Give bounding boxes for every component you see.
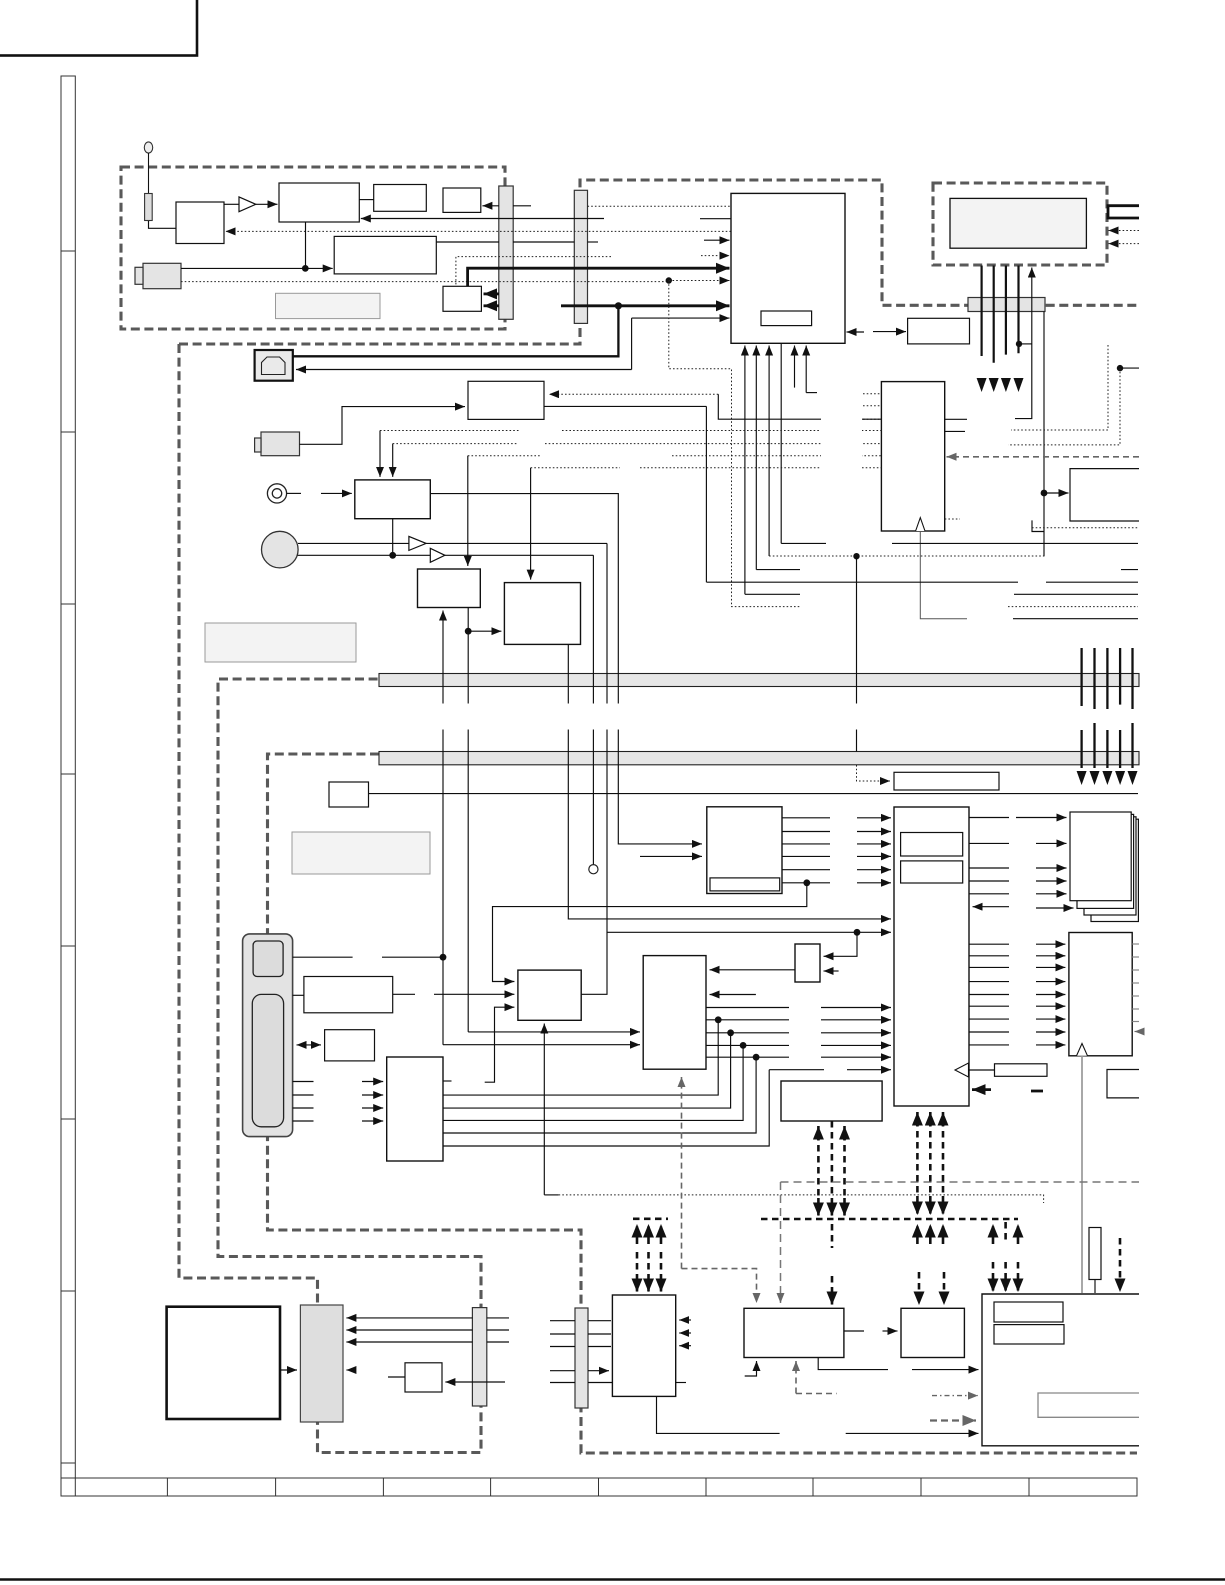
- connector bar power J4: [300, 1305, 343, 1422]
- wire return to T2: [361, 218, 604, 220]
- node T2/RF junction: [302, 265, 309, 272]
- wire J1 pin: [513, 205, 531, 207]
- node remote line: [440, 954, 447, 961]
- V1 to U4 row 6: [782, 882, 891, 884]
- wire J2 pin: [588, 241, 599, 243]
- LCD module box: [950, 198, 1086, 248]
- wire dotted into U1 y255: [701, 255, 730, 257]
- box U5: [1107, 1070, 1139, 1098]
- far right tap into P4: [1119, 1238, 1122, 1292]
- box P1 regulator: [612, 1295, 675, 1396]
- tall IC U4: [894, 807, 969, 1106]
- power column x1120: [1119, 648, 1121, 705]
- box B5: [387, 1057, 443, 1161]
- label box main: [205, 623, 356, 662]
- flash stack back2: [1084, 817, 1136, 915]
- video decoder box V1: [707, 807, 782, 894]
- wire AV bottom to line2: [392, 519, 394, 556]
- wire thick bus to main IC: [561, 304, 730, 307]
- band line y543: [781, 542, 1138, 544]
- box V2: [781, 1081, 882, 1121]
- connector bar J6: [575, 1308, 588, 1408]
- wire A1 down x468: [467, 608, 469, 1032]
- dashed boundary: main board top: [179, 180, 1139, 344]
- wire J2 to main IC (dotted): [588, 205, 732, 207]
- dotted stair a: [1011, 345, 1108, 430]
- cascade drop 1: [443, 1020, 718, 1095]
- gray arrow into M3 right: [1135, 1031, 1140, 1033]
- node J3 line: [1041, 490, 1048, 497]
- gray dashed drop to P2: [780, 1182, 782, 1303]
- U4 inner rect 1: [901, 833, 963, 857]
- M2 left stub 1: [863, 393, 881, 395]
- M3 clock wedge: [1077, 1044, 1088, 1056]
- gray dashdot arrow into P4: [932, 1395, 978, 1397]
- U4 clock triangle: [955, 1063, 969, 1077]
- wire into U1 y240: [704, 239, 730, 241]
- box M1: [1070, 469, 1139, 521]
- wire R1 to E1: [393, 993, 515, 995]
- wire into video box b: [640, 855, 702, 857]
- P1 top power stub: [633, 1218, 668, 1221]
- LCD dotted arrow b: [1109, 243, 1140, 245]
- RF input jack tab: [135, 267, 143, 284]
- crystal box X2: [995, 1064, 1048, 1077]
- gray clock line vertical: [1081, 1056, 1083, 1293]
- U4 right stub r3: [969, 867, 1009, 869]
- gray dashed rail y1182: [781, 1181, 1140, 1183]
- USB connector icon: [255, 350, 293, 381]
- wire stair b stub: [1120, 367, 1139, 369]
- buffer amp triangle: [239, 197, 256, 212]
- wire into E2 b: [824, 970, 839, 972]
- title block (top-left corner box): [0, 0, 197, 56]
- M2 right stub 3: [945, 518, 960, 520]
- wire into U2: [873, 331, 906, 333]
- stack arrow 4: [1036, 880, 1067, 882]
- wire branch into A2: [468, 630, 501, 632]
- wire thick T6 to main IC: [468, 268, 730, 286]
- harness row y1019: [706, 1019, 891, 1021]
- flash stack front: [1070, 812, 1131, 901]
- mid taps into P3: [918, 1272, 921, 1305]
- J6 right stubs: [588, 1321, 612, 1383]
- connector bar tuner J1: [499, 186, 513, 319]
- gray arrow up into P2 bottom: [795, 1361, 797, 1394]
- U4 inner rect 2: [901, 861, 963, 883]
- power tap V2 a: [817, 1126, 820, 1140]
- bus bar 2: [379, 752, 1139, 765]
- band line y582: [707, 581, 1139, 583]
- box R2: [325, 1030, 375, 1061]
- wire antenna to tuner: [149, 221, 177, 228]
- M3 left arrows: [1036, 944, 1065, 1045]
- U4 right stub r1: [969, 817, 1009, 819]
- J5 right stubs: [487, 1318, 509, 1342]
- gray thick dash arrow into P4: [930, 1419, 976, 1421]
- band line y594: [745, 593, 1138, 595]
- wire P2 to P3: [844, 1330, 898, 1332]
- remote display inner: [253, 941, 283, 977]
- wire junction to T5: [305, 267, 332, 269]
- antenna: [144, 142, 152, 222]
- box U3 usb ctrl: [468, 381, 544, 419]
- node x857 drop: [854, 929, 861, 936]
- arrow J6 to P1: [588, 1370, 609, 1372]
- power column x1094: [1093, 648, 1095, 709]
- crystal X3: [1089, 1228, 1101, 1280]
- U4 right stub r2: [969, 842, 1009, 844]
- P1 top taps down arrows: [636, 1252, 639, 1292]
- wire dotted into U3 right: [549, 393, 718, 395]
- wire into B6 right a: [710, 969, 796, 971]
- V1 inner rect: [710, 878, 780, 891]
- M3 right gray stubs: [1132, 944, 1139, 1022]
- box P2 dcdc: [744, 1308, 844, 1357]
- connector bar tuner J2: [574, 190, 587, 323]
- gray clock path to P2: [682, 1269, 757, 1303]
- S-video jack tab: [255, 438, 261, 452]
- wire into USB: [296, 369, 632, 371]
- memory box M2: [881, 382, 944, 531]
- U1 inner label rect: [761, 311, 812, 326]
- wire dotted into U1 y280: [669, 280, 730, 282]
- harness row y1045: [706, 1044, 891, 1046]
- P4 inner rect 2: [994, 1325, 1064, 1344]
- main IC U1: [731, 193, 845, 343]
- box B6: [643, 956, 706, 1070]
- wire node to return line: [1019, 343, 1032, 345]
- U4 power taps mid c: [942, 1112, 945, 1126]
- sheet border left strip: [61, 76, 75, 1478]
- box T7 thin: [894, 772, 999, 790]
- arrows into J4 right a: [346, 1317, 472, 1319]
- box P3: [901, 1308, 964, 1357]
- wire return to T1 (dotted): [226, 230, 732, 232]
- harness row y1057: [706, 1056, 891, 1058]
- dashed boundary: main board left/bottom: [179, 344, 481, 1453]
- LCD ribbon line 3: [1005, 266, 1007, 355]
- node AV audio: [389, 552, 396, 559]
- LCD thick link: [1108, 206, 1139, 218]
- arrow into J4 y1370: [346, 1369, 356, 1371]
- arrows into P1 right: [679, 1320, 691, 1346]
- right taps into P4: [992, 1262, 995, 1292]
- wire amp to T2: [256, 203, 278, 205]
- wire AV out to x618: [430, 494, 702, 844]
- wire E1 clock stub: [544, 1194, 558, 1196]
- dashed boundary: tuner block: [121, 167, 505, 329]
- V1 to U4 row 4: [782, 855, 891, 857]
- mid taps up arrows below bus: [916, 1224, 919, 1244]
- vertical x706 from usb: [705, 406, 707, 582]
- thick dashed power bus: [761, 1218, 1018, 1221]
- dotted harness y443: [393, 443, 882, 445]
- node dotted branch: [666, 277, 672, 283]
- wire line2 down to open node: [592, 555, 594, 864]
- wire RF jack to junction: [181, 267, 305, 269]
- gray stub right: [796, 1393, 837, 1395]
- wire up into E1 bottom: [543, 1024, 545, 1195]
- wire dotted branch down: [669, 281, 732, 607]
- LCD ribbon line 2: [993, 266, 995, 363]
- open node circle: [589, 865, 598, 874]
- wire P2 bottom to P4: [818, 1358, 978, 1370]
- U1 bottom pin 1: [744, 346, 746, 595]
- band line y569: [756, 569, 1138, 571]
- U4 right stubs to M3: [969, 944, 1009, 1045]
- wire T1 to amp: [224, 203, 239, 205]
- U1 bottom pin 3: [768, 346, 770, 557]
- tuner RF box T1: [176, 202, 224, 244]
- flash stack back3: [1091, 819, 1138, 921]
- buffer triangle 1: [409, 536, 426, 550]
- M2 clock wedge: [916, 518, 925, 531]
- wire J1 to T4: [482, 205, 499, 207]
- box U2: [908, 318, 970, 344]
- cascade drop 4: [443, 1057, 756, 1133]
- box PS: [405, 1363, 442, 1392]
- LCD return line up arrow: [1015, 268, 1032, 419]
- power arrow tips: [1077, 771, 1138, 785]
- wire remote to R1: [293, 994, 304, 996]
- power column x1081: [1080, 648, 1082, 706]
- U1 bottom pin 2: [755, 346, 757, 570]
- wire dotted down into A1: [467, 456, 469, 566]
- power tap V2 b: [831, 1121, 834, 1198]
- box T3: [374, 185, 427, 212]
- remote to B5 wire 1: [293, 1081, 384, 1083]
- node cascade 4: [753, 1054, 760, 1061]
- remote to B5 wire 2: [293, 1094, 384, 1096]
- tuner label box: [276, 293, 381, 318]
- wire branch down to USB: [293, 306, 619, 357]
- eeprom box E2: [795, 944, 820, 982]
- PS left stub: [388, 1376, 405, 1378]
- stack arrow 1: [1016, 817, 1067, 819]
- stack arrow 2: [1036, 842, 1067, 844]
- wire remote sensor line: [293, 956, 443, 958]
- U1 bottom pin 4: [780, 343, 782, 543]
- flash stack back1: [1077, 814, 1134, 908]
- stack arrow 3: [1036, 867, 1067, 869]
- wire x607 tee to U4: [607, 931, 891, 933]
- double arrow remote R2: [297, 1044, 322, 1046]
- wire hook to E1: [485, 1007, 515, 1082]
- node x468 branch: [465, 628, 472, 635]
- wire stub IC left: [700, 218, 731, 220]
- dotted x857 below bus2 into T7: [857, 765, 891, 781]
- band line y606 dotted: [731, 606, 1138, 608]
- wire jack2 to U3: [300, 407, 466, 445]
- M2 clock wire: [920, 531, 967, 619]
- S-video jack: [261, 432, 300, 456]
- connector bar J5: [472, 1308, 486, 1406]
- dotted stair b: [1008, 368, 1120, 445]
- pin 6 hook: [806, 392, 817, 394]
- wire USB corner: [631, 318, 633, 369]
- cascade drop 2: [443, 1033, 731, 1108]
- DDR box M3: [1069, 933, 1132, 1056]
- arrow into U4 right: [973, 906, 1010, 908]
- box T4: [443, 188, 481, 212]
- U4 right stub r4: [969, 880, 1009, 882]
- P4 inner gray rect: [1038, 1393, 1139, 1417]
- LCD ribbon line 4: [1017, 266, 1019, 354]
- label box 2: [292, 832, 430, 874]
- dashed boundary: LCD module: [933, 183, 1107, 265]
- stub B5 y1081: [443, 1080, 452, 1082]
- dashed arrow into M2: [947, 456, 1140, 458]
- audio box A1: [418, 569, 481, 608]
- arrow into PS right: [445, 1381, 505, 1383]
- wire phono stub: [287, 492, 301, 494]
- arrow up into P2 bottom: [745, 1361, 757, 1376]
- box T6: [443, 286, 481, 311]
- node thick branch: [615, 302, 622, 309]
- node V1 row6: [803, 879, 810, 886]
- audio mic circle: [262, 531, 299, 568]
- arrow PW to J4: [280, 1369, 297, 1371]
- wire node to M1: [1044, 492, 1069, 494]
- node LCD ribbon: [1016, 341, 1022, 347]
- remote to B5 wire 4: [293, 1120, 384, 1122]
- P1 top taps up arrows: [636, 1224, 639, 1244]
- wire J3 down: [1043, 312, 1045, 557]
- wire RF dotted run: [181, 281, 669, 283]
- power supply box PW: [167, 1307, 280, 1419]
- arrows into J4 right b: [346, 1329, 472, 1331]
- M2 right stub 1: [945, 418, 967, 420]
- audio box A2: [504, 583, 580, 645]
- phono jack: [267, 484, 286, 503]
- node cascade 1: [715, 1016, 722, 1023]
- wire x857 down to bus: [856, 556, 858, 751]
- U4 power taps mid b: [929, 1112, 932, 1126]
- power column lower with arrows: [1082, 723, 1133, 768]
- wire dotted into T6: [456, 257, 611, 287]
- dotted clock line y1195: [559, 1195, 1044, 1203]
- wire up into A1 bottom: [442, 611, 444, 1045]
- RF input jack: [143, 263, 181, 288]
- connector bar LCD J3: [968, 298, 1045, 312]
- wire x607 down: [581, 543, 607, 994]
- wire T2 down to junction: [305, 222, 307, 268]
- bus bar 1: [379, 674, 1139, 687]
- small box S1: [329, 782, 369, 807]
- wire into B6 right b: [710, 994, 756, 996]
- wire into B6 left a: [468, 1031, 640, 1033]
- dashed boundary: front/keypad region: [268, 754, 1138, 1453]
- wire node into E2: [824, 932, 858, 956]
- arrows into J4 right c: [346, 1341, 472, 1343]
- V1 to U4 row 1: [782, 817, 891, 819]
- remote control unit: [243, 934, 293, 1137]
- sheet border bottom ruler band: [61, 1478, 1137, 1496]
- dotted harness y430: [380, 430, 881, 432]
- wire thick J1 to T6 b: [484, 304, 500, 307]
- big box P4: [982, 1294, 1139, 1446]
- tuner IF box T2: [279, 183, 359, 222]
- P4 clock wedge: [1088, 1295, 1100, 1310]
- V1 to U4 row 5: [782, 869, 891, 871]
- stack arrow 5: [1036, 893, 1067, 895]
- dotted harness y467: [531, 467, 882, 469]
- cascade drop 5: [443, 1070, 769, 1146]
- power column x1132: [1131, 648, 1133, 709]
- long line y793: [369, 793, 1139, 795]
- dotted harness y455: [468, 455, 882, 457]
- U1 bottom pin 6: [805, 346, 807, 393]
- wire thick J1 to T6 a: [484, 292, 500, 295]
- wire T2 to T3: [359, 199, 373, 201]
- M2 right stub 2: [945, 430, 965, 432]
- buffer triangle 2: [430, 548, 445, 562]
- wire dotted down into A2: [530, 468, 532, 580]
- wire audio line1: [298, 542, 607, 544]
- wire into U1 right: [847, 331, 865, 333]
- right taps up arrows: [992, 1224, 995, 1244]
- thick arrow into U4 right: [972, 1090, 1043, 1091]
- P1 bottom wire to P4: [657, 1396, 979, 1433]
- V1 to U4 row 3: [782, 843, 891, 845]
- wire T5 to J1: [436, 241, 499, 243]
- wire node loop to E1: [493, 883, 807, 982]
- band line y556 dotted: [769, 555, 1044, 557]
- P4 inner rect 1: [994, 1302, 1063, 1322]
- wire audio line2: [298, 554, 594, 556]
- LCD ribbon line 1: [980, 266, 982, 357]
- wire down into AV a: [379, 431, 381, 477]
- node stair b: [1117, 365, 1123, 371]
- U4 power taps mid a: [916, 1112, 919, 1126]
- power tap into P2 top: [831, 1224, 834, 1248]
- box R1: [304, 977, 393, 1013]
- step x1032: [1032, 520, 1044, 531]
- wire X3 to P4: [1094, 1280, 1096, 1294]
- wire X2 to U4: [969, 1069, 995, 1071]
- LCD ribbon arrowheads: [977, 378, 1024, 392]
- sheet bottom edge line: [0, 1578, 1225, 1580]
- harness row y1069: [769, 1069, 891, 1071]
- remote to B5 wire 3: [293, 1107, 384, 1109]
- node cascade 2: [727, 1029, 734, 1036]
- V1 to U4 row 2: [782, 831, 891, 833]
- M2 left stub 2: [863, 405, 881, 407]
- wire drop x718: [718, 394, 881, 419]
- wire gap between bus bars: [438, 704, 861, 730]
- gray clock arrow into B6: [681, 1077, 683, 1269]
- tuner wide box T5: [334, 236, 436, 274]
- wire phono to AV: [321, 492, 352, 494]
- power tap V2 c: [843, 1126, 846, 1140]
- U4 right stub r5: [969, 893, 1009, 895]
- node cascade 3: [740, 1042, 747, 1049]
- J6 left stubs: [550, 1321, 575, 1383]
- eeprom box E1: [518, 970, 581, 1020]
- remote keypad inner: [252, 994, 283, 1126]
- wire J1-J2 pin: [513, 241, 574, 243]
- label gap left of M2: [821, 412, 862, 474]
- harness row y1007: [706, 1007, 891, 1009]
- wire into IC y318: [632, 317, 730, 319]
- clock wire right segment: [1013, 618, 1138, 620]
- LCD dotted arrow a: [1109, 230, 1140, 232]
- wire into B6 left b: [443, 1044, 640, 1046]
- wire A2 bottom down: [568, 644, 891, 919]
- P1 right stub: [676, 1382, 686, 1384]
- wire U3 out right: [544, 405, 706, 407]
